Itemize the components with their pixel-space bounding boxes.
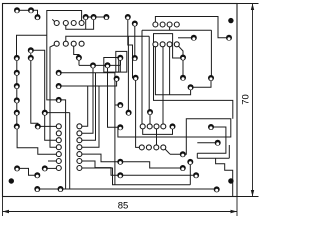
pad P7 [14, 97, 20, 103]
wire [79, 86, 99, 147]
pad P28 [133, 75, 139, 81]
wire [37, 188, 216, 190]
wire [128, 17, 136, 78]
wire [30, 50, 32, 58]
pad P19 [91, 14, 97, 20]
wire [47, 11, 82, 100]
pad P12 [35, 123, 41, 129]
wire [189, 162, 191, 185]
wire [31, 10, 38, 17]
wire [177, 44, 183, 57]
pad P48 [117, 172, 123, 178]
hole G1 [140, 124, 145, 129]
dimension line 85 (bottom) [3, 211, 238, 213]
wire [45, 167, 59, 169]
board outline [3, 4, 238, 197]
hole C2 [160, 22, 165, 27]
wire [31, 58, 38, 127]
pad P38 [208, 124, 214, 130]
pad P3 [35, 14, 41, 20]
hole B3 [71, 41, 76, 46]
wire [59, 100, 66, 189]
dimension extension lines [3, 4, 259, 217]
hole F2 [77, 131, 82, 136]
wire [182, 58, 184, 78]
hole A4 [79, 21, 84, 26]
wire [169, 44, 171, 95]
wire [59, 73, 115, 185]
pad P35 [180, 75, 186, 81]
hole H4 [161, 145, 166, 150]
wire [17, 126, 59, 154]
pad P31 [117, 102, 123, 108]
wire [197, 142, 217, 144]
pad P36 [188, 84, 194, 90]
hole E5 [56, 152, 61, 157]
wire [210, 30, 212, 78]
pad P30 [147, 109, 153, 115]
pad P14 [56, 70, 62, 76]
pad P40 [191, 35, 197, 41]
hole F3 [77, 138, 82, 143]
wire [66, 36, 149, 43]
hole G2 [147, 124, 152, 129]
wire [134, 24, 136, 59]
hole E1 [56, 124, 61, 129]
pad P20 [103, 14, 109, 20]
pad P53 [58, 186, 64, 192]
hole F6 [77, 159, 82, 164]
wire [79, 154, 120, 162]
hole C1 [153, 22, 158, 27]
wire [45, 112, 70, 114]
wire [127, 36, 129, 112]
wire [156, 126, 158, 147]
pad P24 [117, 55, 123, 61]
hole F4 [77, 145, 82, 150]
wire [155, 17, 229, 38]
pad P51 [42, 165, 48, 171]
hole F7 [77, 166, 82, 171]
pad P52 [34, 186, 40, 192]
wire [162, 44, 164, 126]
wire [164, 147, 171, 154]
wire [197, 157, 229, 159]
wire [228, 145, 230, 158]
wire [16, 58, 18, 127]
pad P23 [114, 76, 120, 82]
pad P25 [125, 14, 131, 20]
wire [52, 19, 54, 21]
wire [104, 58, 119, 73]
hole G3 [154, 124, 159, 129]
wire [85, 17, 87, 29]
pad P44 [180, 165, 186, 171]
hole H3 [154, 145, 159, 150]
wire [69, 113, 71, 189]
wire [141, 30, 143, 126]
hole A3 [71, 21, 76, 26]
pad P2 [28, 7, 34, 13]
wire [74, 44, 79, 66]
pad P29 [126, 110, 132, 116]
wire [59, 79, 117, 86]
wire [50, 44, 59, 148]
svg-text:70: 70 [241, 94, 252, 105]
pad P41 [226, 35, 232, 41]
wire [120, 162, 183, 168]
wire [155, 44, 190, 95]
hole B4 [79, 41, 84, 46]
wire [17, 168, 37, 175]
wire [17, 35, 47, 58]
hole D4 [174, 42, 179, 47]
wire [108, 65, 121, 127]
hole C3 [167, 22, 172, 27]
hole H2 [146, 145, 151, 150]
wire [31, 50, 45, 112]
hole D2 [160, 42, 165, 47]
wire [178, 37, 194, 39]
pad P45 [193, 172, 199, 178]
wire [120, 174, 196, 176]
wire [216, 158, 233, 196]
wire [66, 17, 94, 29]
pad P37 [208, 75, 214, 81]
pad P39 [215, 140, 221, 146]
pad P43 [187, 159, 193, 165]
via V1 [228, 18, 233, 23]
hole E4 [56, 145, 61, 150]
wire [191, 78, 211, 87]
pad P13 [42, 110, 48, 116]
pad P11 [28, 55, 34, 61]
hole F5 [77, 152, 82, 157]
pad P5 [14, 70, 20, 76]
pad P17 [76, 55, 82, 61]
pad P16 [56, 97, 62, 103]
hole H1 [139, 145, 144, 150]
wire [197, 127, 226, 153]
pad P50 [34, 172, 40, 178]
wire [196, 153, 198, 158]
wire [38, 125, 59, 127]
pad P18 [83, 14, 89, 20]
pad P6 [14, 83, 20, 89]
pad P22 [105, 62, 111, 68]
pad P34 [180, 55, 186, 61]
wire [79, 168, 190, 185]
hole E2 [56, 131, 61, 136]
wire [79, 73, 95, 141]
pad P4 [14, 55, 20, 61]
pad P8 [14, 110, 20, 116]
hole B1 [54, 41, 59, 46]
hole A2 [63, 21, 68, 26]
wire [149, 112, 151, 126]
pad P33 [170, 123, 176, 129]
wire [79, 161, 120, 175]
hole A1 [54, 21, 59, 26]
pad P1 [14, 7, 20, 13]
wire [79, 65, 93, 133]
hole E3 [56, 138, 61, 143]
hole E7 [56, 166, 61, 171]
hole B2 [63, 41, 68, 46]
hole D3 [167, 42, 172, 47]
pad P26 [132, 21, 138, 27]
via V3 [9, 178, 14, 183]
pad P32 [117, 124, 123, 130]
wire [120, 58, 122, 66]
wire [45, 113, 59, 141]
pad P47 [117, 159, 123, 165]
hole F1 [77, 124, 82, 129]
pad P10 [28, 47, 34, 53]
wire [48, 160, 59, 162]
wire [118, 119, 231, 154]
wire [119, 58, 121, 72]
wire [142, 29, 211, 31]
pad P42 [180, 151, 186, 157]
hole C4 [174, 22, 179, 27]
wire [116, 51, 127, 72]
hole E6 [56, 159, 61, 164]
pad P49 [14, 165, 20, 171]
pad P46 [214, 186, 220, 192]
wire [169, 25, 171, 31]
hole D1 [153, 42, 158, 47]
svg-text:85: 85 [118, 201, 129, 212]
wire [136, 78, 142, 148]
wire [143, 126, 173, 134]
wire [79, 64, 121, 66]
pad P27 [132, 55, 138, 61]
wire [17, 9, 31, 11]
pad P15 [56, 83, 62, 89]
wire [115, 104, 120, 106]
wire [86, 16, 107, 18]
pad P21 [90, 62, 96, 68]
pad P9 [14, 123, 20, 129]
hole G4 [161, 124, 166, 129]
wire [148, 36, 150, 112]
via V2 [228, 178, 233, 183]
wire [79, 86, 87, 126]
dimension line 70 (right) [252, 4, 254, 197]
wire [154, 34, 233, 119]
